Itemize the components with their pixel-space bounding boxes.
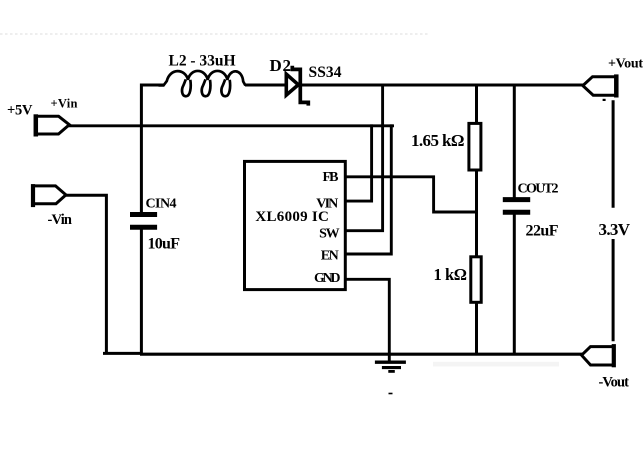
svg-text:+Vout: +Vout (608, 57, 643, 72)
inductor L2 coil (159, 71, 246, 85)
wire into inductor (140, 83, 164, 86)
svg-text:GND: GND (314, 271, 341, 286)
svg-text:L2 - 33uH: L2 - 33uH (169, 53, 236, 70)
wire resistor branch top (475, 84, 478, 124)
IC U1 XL6009 box (245, 161, 346, 289)
svg-text:-Vout: -Vout (599, 375, 630, 391)
stray dot near +Vout (603, 99, 606, 101)
diode D2 (286, 74, 298, 95)
connector J4 -Vout (582, 347, 614, 365)
wire EN (346, 124, 392, 254)
svg-text:22uF: 22uF (526, 222, 559, 239)
wire COUT2 branch bottom (513, 212, 516, 354)
svg-text:CIN4: CIN4 (146, 196, 177, 211)
svg-text:10uF: 10uF (148, 235, 181, 252)
resistor R2 1k (471, 257, 481, 303)
resistor R1 1.65k (469, 123, 481, 170)
ground (375, 361, 406, 364)
svg-text:-Vin: -Vin (48, 212, 73, 228)
wire COUT2 branch top (513, 84, 516, 200)
wire resistor branch bottom (475, 302, 478, 354)
svg-text:COUT2: COUT2 (518, 182, 559, 197)
wire bottom rail (103, 352, 142, 355)
wire inductor to diode (245, 83, 287, 86)
svg-text:VIN: VIN (316, 197, 338, 212)
wire left vertical lower (140, 227, 143, 354)
wire diode to +Vout (301, 83, 584, 86)
stray dash below ground (389, 393, 393, 395)
ghost band under bottom rail (433, 362, 559, 367)
svg-text:+5V: +5V (7, 103, 33, 119)
svg-text:+Vin: +Vin (51, 97, 78, 111)
wire VIN (346, 124, 372, 201)
svg-text:1 kΩ: 1 kΩ (434, 265, 468, 284)
svg-text:D2: D2 (270, 56, 292, 75)
svg-text:3.3V: 3.3V (599, 220, 631, 239)
svg-text:EN: EN (321, 249, 339, 264)
wire right rail lower (612, 239, 615, 341)
faint scan artifact line (0, 33, 430, 35)
connector J1 +5V (36, 116, 70, 134)
wire GND (346, 279, 390, 362)
wire left vertical upper (140, 84, 143, 215)
connector J3 +Vout (583, 77, 616, 96)
wire +5V rail (68, 124, 394, 127)
connector J2 -Vin (33, 186, 66, 204)
wire SW (346, 84, 383, 231)
wire -Vin to bottom rail (65, 195, 107, 354)
wire FB (346, 177, 479, 212)
svg-text:SW: SW (319, 227, 340, 242)
svg-text:SS34: SS34 (309, 64, 342, 81)
svg-text:FB: FB (323, 170, 339, 185)
wire right rail upper (612, 100, 615, 207)
svg-text:1.65 kΩ: 1.65 kΩ (411, 131, 465, 150)
capacitor CIN4 (130, 212, 157, 217)
wire between resistors (475, 170, 478, 257)
svg-text:XL6009 IC: XL6009 IC (255, 209, 329, 225)
capacitor COUT2 (503, 197, 530, 202)
